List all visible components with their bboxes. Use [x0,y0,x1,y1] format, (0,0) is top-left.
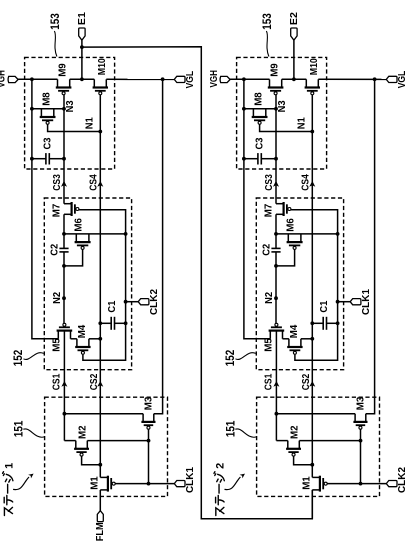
stage1 transistor M7 [64,203,72,205]
stage1 wire M7 to C2 segment [63,214,65,248]
stage2 capacitor C3 [244,158,258,160]
svg-text:153: 153 [260,13,274,30]
stage2 node C1 left dot [310,321,314,325]
stage1 wire M10 gate CS4 vertical [99,95,101,478]
svg-text:E1: E1 [77,12,88,25]
stage1 wire M8 source line [32,108,64,110]
stage1 node CLK2 junction dot [124,300,128,304]
stage1 wire M2 gate to CS2 [82,456,101,465]
svg-text:CS2: CS2 [89,373,100,390]
stage1 node C1 right dot [124,321,128,325]
stage1 dashed box 151 [45,397,168,496]
stage2 wire M9 drain to E node [282,78,307,80]
stage2 arrow CS4 [309,181,315,187]
stage1 arrow CS4 [97,181,103,187]
svg-text:1: 1 [3,463,15,469]
stage2 capacitor C2 [271,247,280,249]
stage2 node M4-CS2 dot [310,337,314,341]
stage2 wire M2 drain line [299,440,360,442]
svg-text:CS1: CS1 [264,373,275,390]
svg-text:M6: M6 [74,218,85,232]
stage1 wire VGH rail segment [18,78,58,80]
stage1 node M6 gate junction dot [62,264,66,268]
svg-text:153: 153 [48,13,62,30]
stage2 leader squiggle for 151 [235,429,256,437]
stage2 wire M1 to carry-in [311,490,313,519]
stage1 leader squiggle for 153 [54,31,57,57]
stage1 transistor M2 [75,441,77,449]
stage1 wire M9 drain to E node [70,78,95,80]
stage2 wire M8 source line [244,108,276,110]
stage2 wire M5 to M4 segment [283,338,289,340]
stage1 wire E1 vertical [81,40,83,79]
stage1 arrow pointer stage 1 [13,477,29,490]
svg-text:VGL: VGL [397,71,408,89]
stage2 node N2 marker dot [274,296,278,300]
svg-text:VGH: VGH [0,70,8,88]
stage1 wire M6 line [64,233,126,235]
svg-text:VGH: VGH [209,70,220,88]
stage2 wire M3 to VGL corner [366,79,375,413]
stage2 transistor M2 [287,441,289,449]
svg-text:M9: M9 [269,63,280,77]
stage1 wire M3 gate down [148,429,150,483]
svg-text:VGL: VGL [185,71,196,89]
svg-text:M4: M4 [77,324,88,338]
stage1 node C3 right dot [62,157,66,161]
stage1 wire M8 gate to N1 [48,124,101,131]
svg-text:N2: N2 [52,292,63,304]
stage2 node rail-E junction dot [292,77,296,81]
stage1 leader squiggle for 152 [24,353,44,360]
stage2 wire M5 center tap CS1 [275,331,277,441]
svg-text:CLK1: CLK1 [185,467,196,493]
stage2 node CLK1 junction dot [336,300,340,304]
stage2 wire M8 gate to N1 [260,124,313,131]
stage2 node M6 left dot [274,232,278,236]
svg-text:C1: C1 [107,300,118,312]
stage1 wire M4 to CS2 [89,338,100,340]
svg-text:CLK2: CLK2 [397,467,408,493]
stage1 transistor M4 [76,339,78,347]
svg-text:2: 2 [215,463,227,469]
stage2 leader squiggle for 153 [266,31,269,57]
stage1 node C1 left dot [98,321,102,325]
svg-text:M2: M2 [290,425,301,439]
stage2 wire VGH rail segment [230,78,270,80]
svg-text:N1: N1 [296,117,307,129]
stage2 wire C2 to N2 segment [275,252,277,324]
stage2 node VGH branch dot [242,77,246,81]
wire carry loop stage1 E1 to stage2 input [82,47,312,519]
stage2 wire M7 gate to CLK line [291,210,338,360]
stage1 dashed box 153 [25,57,115,169]
stage2 node N3 dot [274,107,278,111]
svg-text:M9: M9 [57,63,68,77]
svg-text:C1: C1 [319,300,330,312]
stage1 terminal VGL [174,76,185,82]
stage2 dashed box 153 [237,57,327,169]
svg-text:CS3: CS3 [52,174,63,191]
stage2 node C1 right dot [336,321,340,325]
stage1 node M6 left dot [62,232,66,236]
stage2 transistor M5 [269,331,271,339]
stage2 node CS1-M3 dot [275,412,279,416]
stage2 wire CS1 corner to M2 [276,440,287,442]
stage2 wire M1 gate to CLK2 [327,483,386,485]
stage1 wire CS1 corner to M2 [64,440,75,442]
stage2 wire CS1 to M3 line [276,413,355,415]
stage1 node C3 left dot [30,157,34,161]
stage1 wire M2 drain line [87,440,148,442]
stage2 transistor M3 [354,414,356,422]
svg-text:M1: M1 [302,476,313,490]
svg-text:M7: M7 [264,203,275,217]
stage2 wire N3-CS3 vertical [275,95,277,204]
stage1 arrow CS2 [97,381,103,387]
stage1 wire VGH vertical [32,79,58,339]
svg-text:CLK2: CLK2 [149,289,160,315]
stage2 dashed box 151 [257,397,380,496]
stage1 node VGL branch dot [161,77,165,81]
stage2 transistor M9 [269,79,271,87]
stage1 transistor M5 [57,331,59,339]
stage1 label stage 1 [3,463,16,516]
svg-text:M6: M6 [286,218,297,232]
stage1 node M2 gate dot [98,463,102,467]
stage2 dashed box 152 [256,198,343,370]
svg-text:C2: C2 [261,243,272,255]
stage2 wire M2 gate to CS2 [294,456,313,465]
stage2 wire CLK1 stub [338,301,351,303]
stage2 node C3 left dot [242,157,246,161]
stage1 node N3 dot [62,107,66,111]
svg-text:M3: M3 [356,396,367,410]
svg-text:FLM: FLM [95,522,106,541]
svg-text:M10: M10 [97,58,108,75]
stage1 terminal CLK1 [174,481,185,487]
stage1 terminal VGH [8,76,18,82]
stage1 node N2 marker dot [62,296,66,300]
stage1 transistor M9 [57,79,59,87]
stage2 wire M7 to C2 segment [275,214,277,248]
stage2 node VGL branch dot [373,77,377,81]
stage1 transistor M10 [93,79,95,87]
stage2 wire M4 to CS2 [301,338,312,340]
stage1 transistor M8 [40,109,42,117]
stage1 node N1 dot [98,130,102,134]
svg-text:M8: M8 [254,92,265,106]
stage1 capacitor C2 [59,247,68,249]
stage1 wire CLK2 stub [126,301,139,303]
svg-text:CS4: CS4 [89,174,100,191]
stage1 wire M10 to VGL terminal [106,78,174,80]
stage1 capacitor C1 [100,322,111,324]
stage1 wire M6 gate to N2 [64,249,83,266]
stage2 transistor M8 [252,109,254,117]
stage2 terminal VGL [386,76,397,82]
stage1 node M4-CS2 dot [98,337,102,341]
stage2 wire M10 to VGL terminal [318,78,386,80]
svg-text:N1: N1 [84,117,95,129]
svg-text:M7: M7 [52,203,63,217]
svg-text:M8: M8 [42,92,53,106]
svg-text:N2: N2 [264,292,275,304]
stage2 wire M3 gate down [360,429,362,483]
stage1 wire M1 gate to CLK1 [115,483,174,485]
stage2 label stage 2 [214,463,227,516]
stage1 wire M1 to FLM [99,490,101,511]
stage1 arrow CS3 [61,181,67,187]
stage2 arrow pointer stage 2 [225,477,241,490]
svg-text:M5: M5 [264,338,275,352]
svg-text:CS2: CS2 [301,373,312,390]
svg-text:CS1: CS1 [52,373,63,390]
stage2 node M6 right dot [336,232,340,236]
svg-text:C3: C3 [43,137,54,149]
svg-text:CLK1: CLK1 [361,289,372,315]
stage1 leader squiggle for 151 [23,429,44,437]
stage2 transistor M10 [305,79,307,87]
stage2 transistor M7 [276,203,284,205]
stage2 terminal CLK2 [386,481,397,487]
stage1 wire M5 center tap CS1 [63,331,65,441]
stage1 node M8-VGH dot [30,107,34,111]
stage2 node N1 dot [310,130,314,134]
svg-text:M3: M3 [144,396,155,410]
stage2 node M2 gate dot [310,463,314,467]
svg-text:M1: M1 [90,476,101,490]
stage2 arrow CS3 [273,181,279,187]
stage1 dashed box 152 [44,198,131,370]
stage1 wire M3 to VGL corner [154,79,163,413]
svg-text:M5: M5 [52,338,63,352]
stage1 transistor M6 [75,234,77,242]
stage1 node E1 junction dot [80,45,84,49]
stage2 capacitor C1 [312,322,323,324]
stage2 arrow CS1 [273,381,279,387]
svg-text:M2: M2 [78,425,89,439]
stage2 transistor M1 [312,476,320,478]
stage2 arrow CS2 [309,381,315,387]
stage1 transistor M3 [142,414,144,422]
stage2 transistor M6 [287,234,289,242]
stage2 node CLK2 line dot [359,482,363,486]
svg-text:152: 152 [11,349,25,366]
stage2 wire E2 vertical [293,40,295,79]
stage2 wire M6 gate to N2 [276,249,295,266]
svg-text:C3: C3 [255,137,266,149]
svg-text:M10: M10 [309,58,320,75]
stage2 leader squiggle for 152 [236,353,256,360]
svg-text:152: 152 [223,349,237,366]
stage2 node M6 gate junction dot [274,264,278,268]
stage1 node CS1-M3 dot [63,412,67,416]
stage1 capacitor C3 [32,158,46,160]
stage1 arrow CS1 [61,381,67,387]
stage2 wire M6 line [276,233,338,235]
svg-text:CS4: CS4 [301,174,312,191]
stage2 transistor M4 [288,339,290,347]
stage2 wire M10 gate CS4 vertical [311,95,313,478]
stage2 wire VGH vertical [244,79,270,339]
stage1 terminal E1 [79,28,85,40]
stage1 wire C2 to N2 segment [63,252,65,324]
stage2 node C3 right dot [274,157,278,161]
stage1 node rail-E junction dot [80,77,84,81]
stage1 node VGH branch dot [30,77,34,81]
stage1 wire M5 to M4 segment [71,338,77,340]
svg-text:N3: N3 [277,100,288,112]
stage1 wire CS1 to M3 line [64,413,143,415]
svg-text:CS3: CS3 [264,174,275,191]
svg-text:M4: M4 [289,324,300,338]
stage1 node M6 right dot [124,232,128,236]
stage1 wire M7 gate to CLK line [79,210,126,360]
stage1 node M3 gate dot [147,439,151,443]
stage1 transistor M1 [100,476,108,478]
stage1 wire N3-CS3 vertical [63,95,65,204]
stage1 terminal CLK2 [138,299,149,305]
stage2 terminal E2 [291,28,297,40]
stage2 node M3 gate dot [359,439,363,443]
svg-text:N3: N3 [65,100,76,112]
stage2 terminal VGH [220,76,230,82]
stage2 terminal CLK1 [350,299,361,305]
svg-text:C2: C2 [49,243,60,255]
stage1 terminal FLM [97,511,103,522]
stage1 node CLK1 line dot [147,482,151,486]
stage2 node M8-VGH dot [242,107,246,111]
svg-text:E2: E2 [289,12,300,25]
